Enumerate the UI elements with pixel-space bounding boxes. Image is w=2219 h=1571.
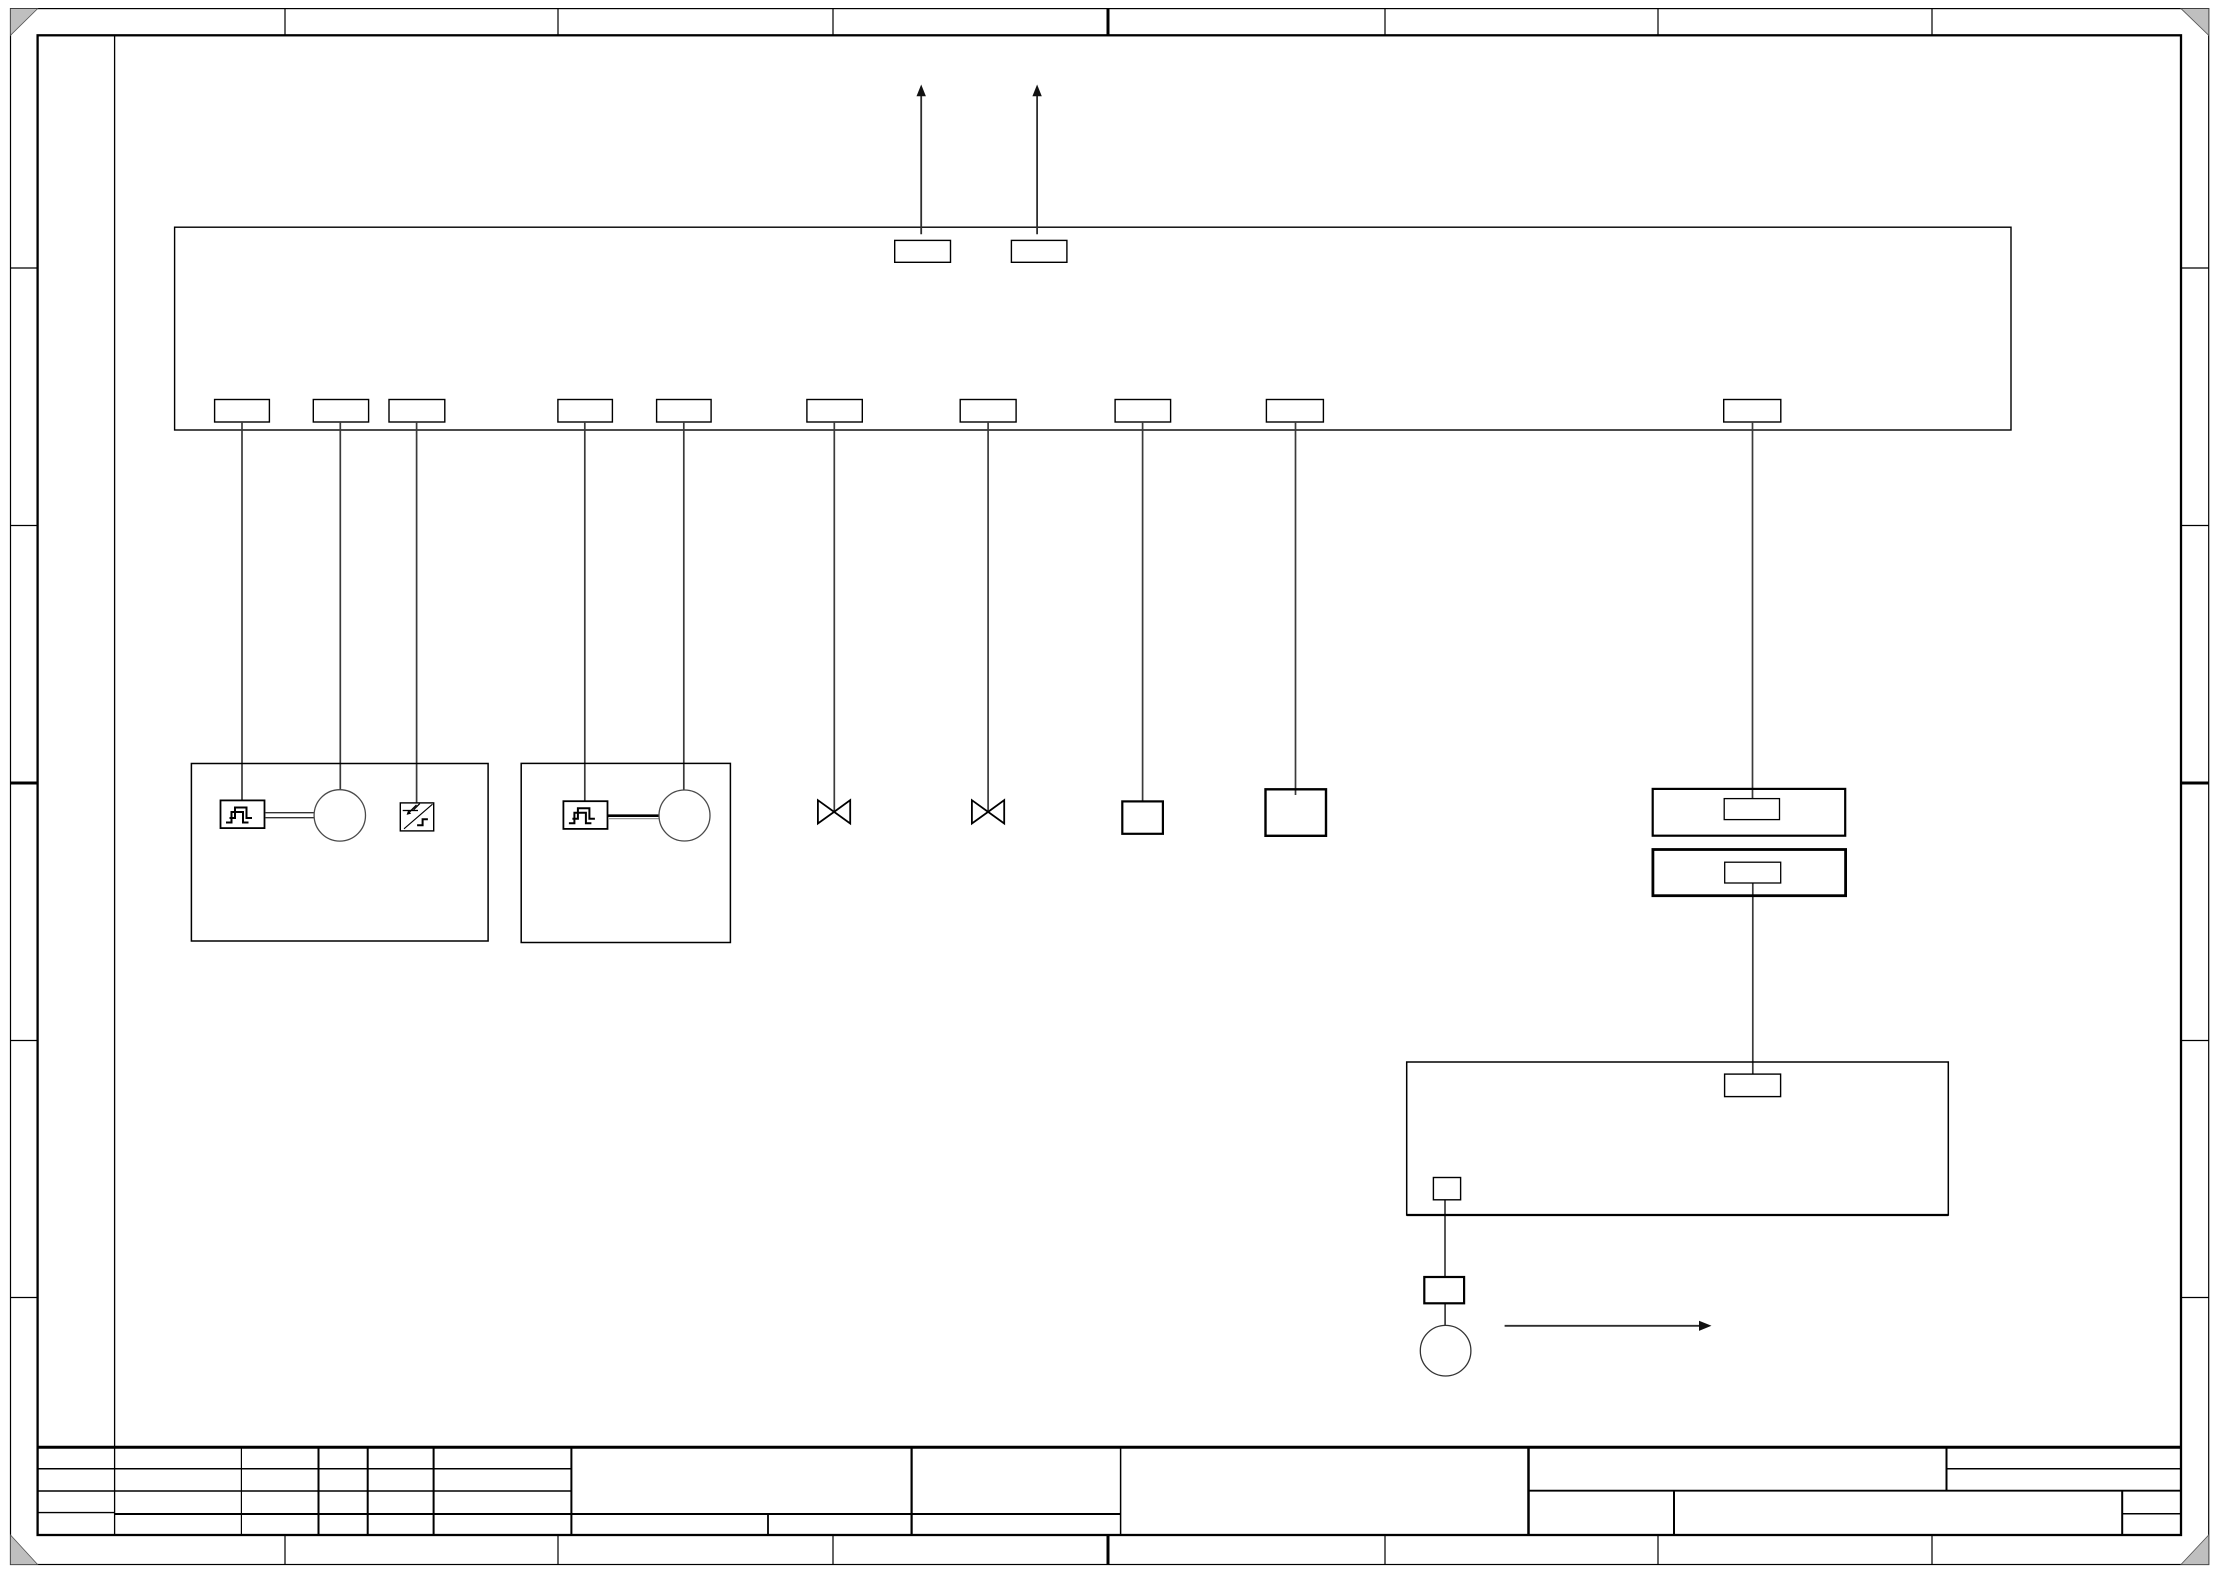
- row line 2 right: [1529, 1490, 2182, 1492]
- top terminal X2: [1011, 240, 1067, 262]
- row line 1 right: [1947, 1468, 2182, 1470]
- coupling double line 1: [265, 813, 314, 818]
- bottom terminal T2: [313, 400, 368, 423]
- motor M1: [314, 790, 365, 841]
- up arrow 1: [917, 85, 926, 235]
- box N: [1424, 1277, 1464, 1303]
- row line 1 left: [38, 1468, 572, 1470]
- valve V1: [818, 800, 850, 823]
- motor M2: [659, 790, 710, 841]
- top terminal X1: [895, 240, 951, 262]
- wire 2: [339, 422, 341, 790]
- bottom terminal T10: [1724, 400, 1781, 423]
- corner triangle bottom-left: [11, 1535, 38, 1565]
- wire K to M: [1752, 883, 1754, 1074]
- title block verticals: [240, 1447, 242, 1535]
- bottom terminal T3: [389, 400, 445, 423]
- wire 10: [1752, 422, 1754, 799]
- corner triangle bottom-right: [2181, 1535, 2209, 1565]
- row line 3 left: [38, 1512, 115, 1514]
- valve V2: [972, 800, 1004, 823]
- pulse encoder B2: [563, 801, 607, 829]
- TITLE BLOCK: [38, 1447, 2181, 1535]
- box H: [1122, 801, 1163, 833]
- up arrow 2: [1032, 85, 1041, 235]
- wire 4: [584, 422, 586, 801]
- coupling link 2: [608, 814, 659, 817]
- bottom terminal T7: [960, 400, 1016, 423]
- wire 6: [833, 422, 835, 812]
- wire 7: [987, 422, 989, 812]
- wire M to N: [1444, 1200, 1446, 1277]
- bottom terminal T1: [215, 400, 270, 423]
- flow arrow right: [1505, 1321, 1712, 1331]
- pulse encoder B1: [221, 800, 265, 828]
- drawing area column divider: [114, 35, 116, 1535]
- group box 2: [521, 763, 730, 942]
- wire N to O: [1444, 1303, 1446, 1325]
- wire 3: [416, 422, 418, 803]
- bottom terminal T8: [1115, 400, 1171, 423]
- bottom terminal T5: [657, 400, 712, 423]
- box I: [1266, 789, 1327, 836]
- row line 3 right: [2122, 1513, 2181, 1515]
- module K: [1653, 850, 1846, 896]
- wire 9: [1295, 422, 1297, 795]
- group box 1: [191, 764, 488, 942]
- bottom terminal T6: [807, 400, 862, 423]
- wire 8: [1142, 422, 1144, 801]
- bottom terminal T9: [1266, 400, 1323, 423]
- wire 5: [683, 422, 685, 790]
- bottom terminal T4: [558, 400, 613, 423]
- PLC bus box: [175, 227, 2011, 430]
- wire 1: [241, 422, 243, 800]
- row line 2 left: [38, 1490, 572, 1492]
- circle O: [1420, 1325, 1471, 1376]
- module J: [1653, 789, 1846, 836]
- controller box M: [1407, 1062, 1949, 1215]
- converter U1: [400, 803, 433, 831]
- top rule: [38, 1446, 2181, 1449]
- corner triangle top-right: [2181, 9, 2209, 36]
- corner triangle top-left: [11, 9, 38, 36]
